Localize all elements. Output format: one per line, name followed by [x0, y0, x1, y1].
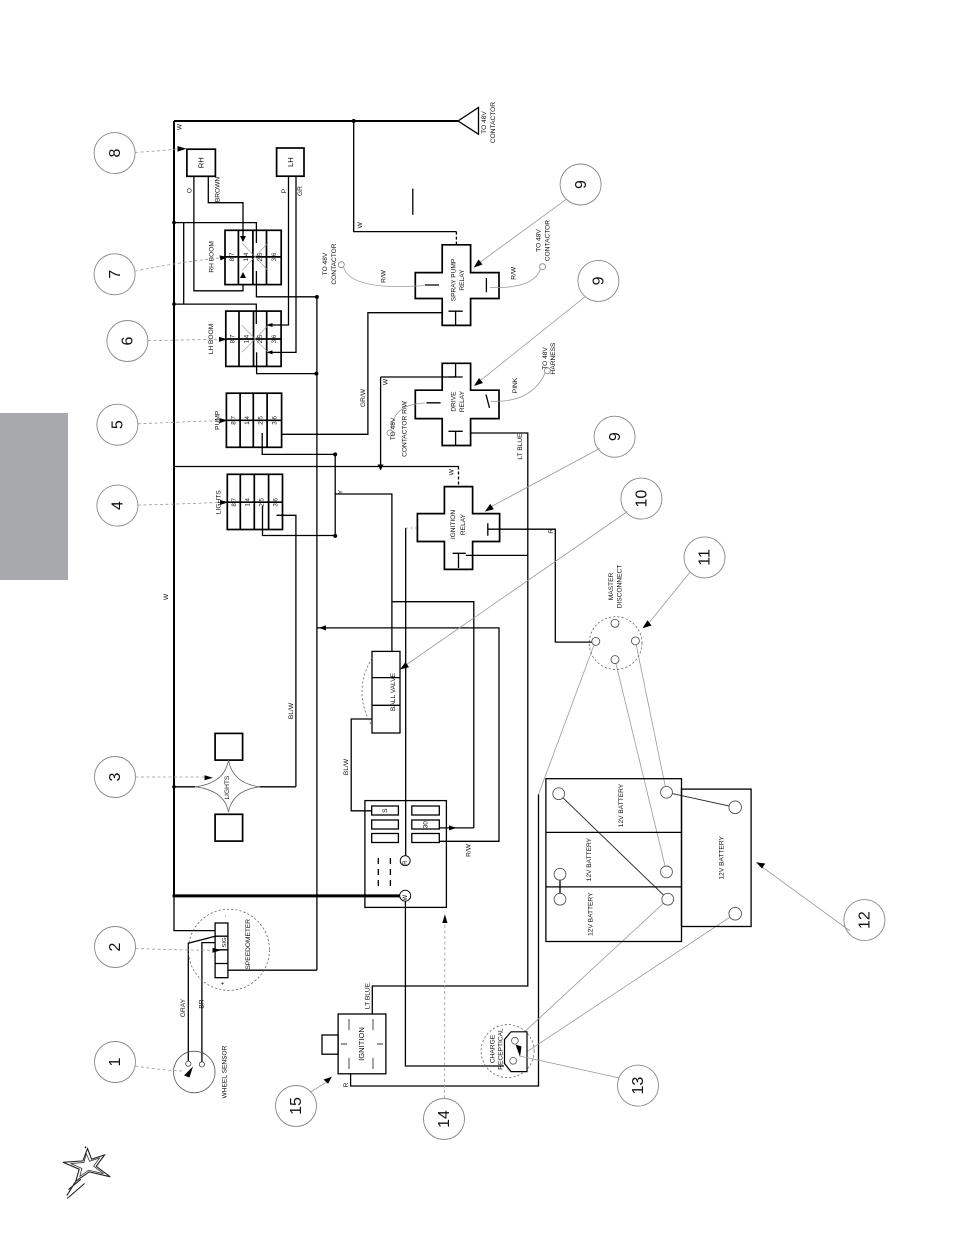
svg-text:DRIVE: DRIVE: [450, 391, 457, 412]
svg-text:S: S: [382, 808, 389, 813]
svg-text:SPRAY PUMP: SPRAY PUMP: [450, 258, 457, 301]
svg-text:BR: BR: [198, 999, 205, 1008]
svg-text:W: W: [449, 468, 456, 475]
svg-text:SPEEDOMETER: SPEEDOMETER: [245, 919, 252, 970]
svg-text:MASTER: MASTER: [608, 573, 615, 601]
svg-text:CONTACTOR R/W: CONTACTOR R/W: [401, 400, 408, 457]
svg-text:+: +: [220, 981, 227, 985]
svg-text:3 6: 3 6: [273, 497, 280, 506]
svg-text:2 5: 2 5: [257, 416, 264, 425]
svg-text:1 4: 1 4: [243, 252, 250, 261]
svg-text:CHARGE: CHARGE: [490, 1034, 497, 1063]
svg-text:R/W: R/W: [510, 266, 517, 280]
svg-text:RH BOOM: RH BOOM: [208, 241, 215, 273]
svg-text:W: W: [357, 221, 364, 228]
svg-text:SIG: SIG: [222, 937, 228, 947]
svg-text:TO 48V: TO 48V: [481, 111, 488, 134]
svg-text:11: 11: [697, 549, 714, 566]
svg-text:12V BATTERY: 12V BATTERY: [588, 892, 595, 936]
svg-text:CONTACTOR: CONTACTOR: [331, 243, 338, 284]
svg-text:3 6: 3 6: [271, 416, 278, 425]
svg-text:PINK: PINK: [512, 377, 519, 393]
svg-text:R: R: [403, 860, 409, 865]
svg-text:TO 48V: TO 48V: [542, 347, 549, 370]
svg-text:TO 48V: TO 48V: [390, 417, 397, 440]
svg-text:HARNESS: HARNESS: [550, 342, 557, 374]
svg-text:W: W: [403, 895, 409, 901]
svg-text:6: 6: [120, 336, 137, 345]
svg-text:RH: RH: [197, 157, 206, 168]
svg-text:2 5: 2 5: [257, 334, 264, 343]
svg-text:RELAY: RELAY: [459, 390, 466, 412]
svg-text:1 4: 1 4: [244, 416, 251, 425]
svg-text:12: 12: [857, 911, 874, 929]
svg-text:CONTACTOR: CONTACTOR: [490, 102, 497, 143]
svg-text:GR/W: GR/W: [360, 388, 367, 407]
svg-text:.: .: [221, 914, 228, 916]
svg-text:BL/W: BL/W: [343, 758, 350, 775]
svg-text:13: 13: [630, 1077, 647, 1095]
svg-text:9: 9: [591, 276, 608, 285]
svg-text:12V BATTERY: 12V BATTERY: [618, 783, 625, 827]
svg-text:12V BATTERY: 12V BATTERY: [719, 836, 726, 880]
svg-text:GRAY: GRAY: [180, 998, 187, 1017]
svg-text:RELAY: RELAY: [460, 513, 467, 535]
svg-text:R/W: R/W: [465, 843, 472, 857]
svg-text:9: 9: [573, 180, 590, 189]
svg-text:RELAY: RELAY: [459, 269, 466, 291]
svg-text:3 6: 3 6: [271, 334, 278, 343]
svg-text:2: 2: [107, 942, 124, 951]
svg-text:LH: LH: [286, 157, 295, 167]
svg-text:W: W: [163, 593, 170, 600]
svg-text:O: O: [187, 188, 194, 193]
svg-text:P: P: [281, 188, 288, 193]
svg-text:WHEEL SENSOR: WHEEL SENSOR: [222, 1045, 229, 1098]
svg-text:3 6: 3 6: [271, 252, 278, 261]
svg-text:DISCONNECT: DISCONNECT: [616, 565, 623, 609]
svg-text:1 4: 1 4: [244, 497, 251, 506]
svg-text:R: R: [343, 1082, 350, 1087]
svg-text:30: 30: [423, 821, 430, 829]
svg-text:W: W: [177, 123, 184, 130]
svg-text:3: 3: [107, 772, 124, 781]
svg-text:14: 14: [436, 1110, 453, 1128]
svg-text:TO 48V: TO 48V: [536, 229, 543, 252]
svg-text:12V BATTERY: 12V BATTERY: [586, 837, 593, 881]
svg-text:8 7: 8 7: [230, 416, 237, 425]
svg-text:W: W: [383, 378, 390, 385]
svg-text:8 7: 8 7: [230, 334, 237, 343]
svg-text:BALL VALVE: BALL VALVE: [390, 672, 397, 711]
svg-text:BROWN: BROWN: [215, 177, 222, 203]
svg-text:4: 4: [110, 501, 127, 510]
svg-text:R: R: [548, 529, 555, 534]
svg-text:CONTACTOR: CONTACTOR: [545, 220, 552, 261]
svg-text:RECEPTICAL: RECEPTICAL: [497, 1028, 504, 1070]
svg-text:LT BLUE: LT BLUE: [517, 433, 524, 460]
svg-text:R/W: R/W: [381, 269, 388, 283]
svg-text:5: 5: [110, 420, 127, 429]
svg-text:7: 7: [107, 270, 124, 279]
svg-text:LIGHTS: LIGHTS: [224, 775, 231, 799]
svg-text:8 7: 8 7: [231, 497, 238, 506]
svg-text:BL/W: BL/W: [288, 702, 295, 719]
svg-text:15: 15: [288, 1097, 305, 1115]
svg-text:IGNITION: IGNITION: [450, 510, 457, 540]
svg-text:1 4: 1 4: [243, 334, 250, 343]
svg-text:2 5: 2 5: [259, 497, 266, 506]
svg-text:8: 8: [107, 149, 124, 158]
svg-text:10: 10: [634, 490, 651, 508]
svg-text:LT BLUE: LT BLUE: [365, 982, 372, 1009]
svg-text:1: 1: [107, 1057, 124, 1066]
svg-text:2 5: 2 5: [257, 252, 264, 261]
svg-text:8 7: 8 7: [229, 252, 236, 261]
svg-text:TO 48V: TO 48V: [322, 252, 329, 275]
svg-text:GR: GR: [297, 186, 304, 196]
svg-text:9: 9: [607, 432, 624, 441]
svg-text:IGNITION: IGNITION: [357, 1027, 366, 1061]
svg-text:Y: Y: [338, 489, 345, 494]
